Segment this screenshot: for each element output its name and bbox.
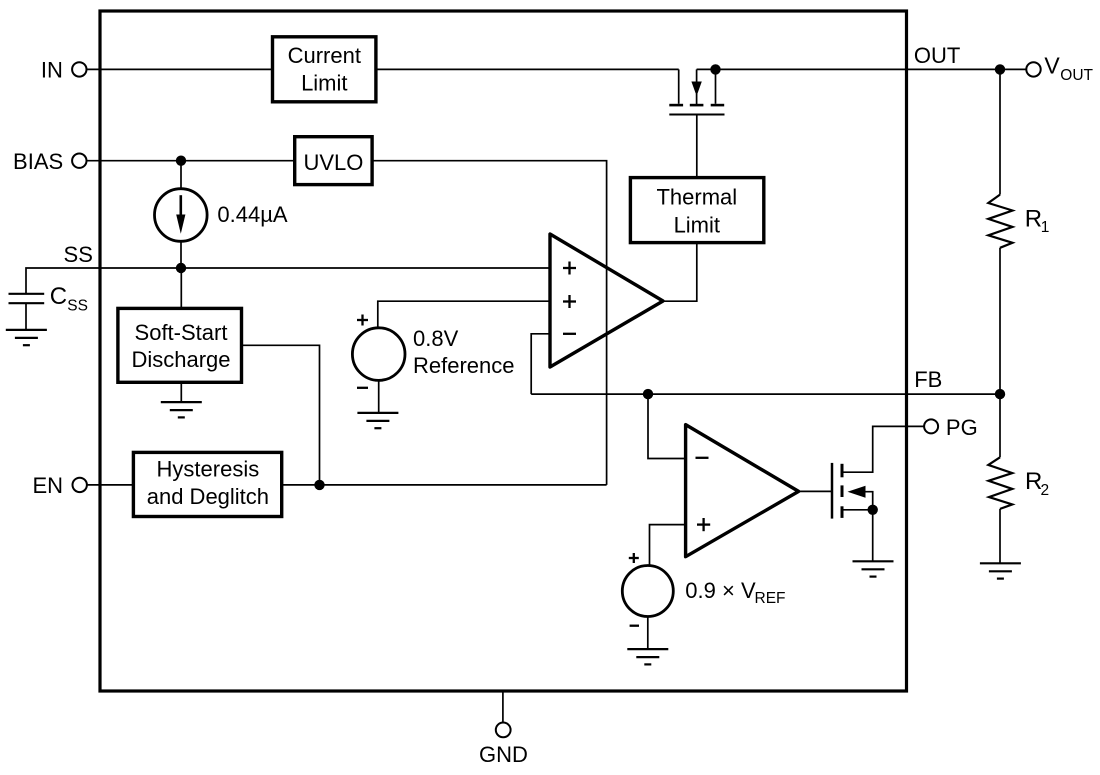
R2 top wire xyxy=(999,394,1001,457)
svg-text:BIAS: BIAS xyxy=(13,149,63,174)
resistor R2 xyxy=(980,394,1021,578)
R2 zigzag xyxy=(988,457,1012,509)
svg-text:GND: GND xyxy=(479,742,528,767)
pin circle EN xyxy=(73,478,87,492)
R2 bottom wire xyxy=(999,509,1001,563)
svg-text:0.44µA: 0.44µA xyxy=(217,202,287,227)
block Current Limit xyxy=(273,37,376,102)
wire Current Limit to pass transistor xyxy=(377,68,679,70)
wire OUT line xyxy=(697,68,1027,70)
U2 plus sign xyxy=(697,518,710,531)
I1 top wire xyxy=(180,161,182,189)
pin circle IN xyxy=(72,62,86,76)
block Thermal Limit xyxy=(630,178,763,243)
svg-text:Current: Current xyxy=(288,43,361,68)
pin circle GND xyxy=(496,723,511,738)
U1 plus sign input 2 xyxy=(563,295,576,308)
I1 arrow head xyxy=(176,215,185,234)
R1 bottom wire xyxy=(999,248,1001,394)
block Soft-Start Discharge xyxy=(118,308,242,382)
CSS top plate xyxy=(9,293,45,295)
voltage source V1 0.8V reference xyxy=(352,301,550,428)
V1 top wire to error amp input 2 xyxy=(378,301,550,328)
I1 bottom wire xyxy=(180,241,182,268)
svg-text:and Deglitch: and Deglitch xyxy=(147,484,269,509)
svg-text:R: R xyxy=(1025,206,1042,233)
transistor Q1 pass PMOS xyxy=(669,69,724,177)
Q1 drain tick xyxy=(711,104,725,107)
wire Hysteresis output to UVLO net xyxy=(282,484,607,486)
node dot Q1 drain on OUT wire xyxy=(710,64,720,74)
wire comparator plus input from V2 xyxy=(650,525,686,566)
Q2 body tick xyxy=(841,485,844,497)
R1 top wire xyxy=(999,69,1001,194)
svg-text:Hysteresis: Hysteresis xyxy=(157,457,260,482)
Q1 gate wire to Thermal Limit xyxy=(696,115,698,178)
wire SS to Soft-Start Discharge xyxy=(180,268,182,308)
Q1 body arrow tail to tick xyxy=(696,94,698,105)
V1 plus sign xyxy=(357,315,368,326)
ground under Soft-Start Discharge xyxy=(161,402,202,417)
svg-text:REF: REF xyxy=(755,590,786,607)
svg-text:Discharge: Discharge xyxy=(131,347,230,372)
CSS bottom wire xyxy=(25,303,27,330)
Q2 source tick xyxy=(841,506,844,518)
wire FB to comparator minus input xyxy=(648,394,686,458)
I1 arrow shaft xyxy=(180,195,183,216)
svg-text:FB: FB xyxy=(914,367,942,392)
svg-text:UVLO: UVLO xyxy=(303,150,363,175)
node dot FB comparator junction xyxy=(643,389,653,399)
Q1 source tick xyxy=(669,104,683,107)
block UVLO xyxy=(295,137,372,185)
node dot FB R1 R2 junction xyxy=(995,389,1005,399)
Q2 drain tick xyxy=(841,464,844,478)
Q2 body wire xyxy=(864,492,873,510)
svg-text:0.9 × V: 0.9 × V xyxy=(685,578,756,603)
svg-text:PG: PG xyxy=(946,415,978,440)
svg-text:Soft-Start: Soft-Start xyxy=(135,320,228,345)
svg-text:IN: IN xyxy=(41,58,63,83)
V2 bottom wire xyxy=(647,617,649,650)
CSS bottom plate xyxy=(9,302,45,304)
pin circle PG xyxy=(924,419,938,433)
svg-text:SS: SS xyxy=(64,242,93,267)
svg-text:C: C xyxy=(50,283,67,310)
V2 plus sign xyxy=(629,553,639,563)
wire EN pin to Hysteresis block xyxy=(87,484,134,486)
V1 circle xyxy=(352,328,405,381)
capacitor CSS xyxy=(6,294,47,345)
node dot BIAS current-source junction xyxy=(176,156,186,166)
Q1 body arrow head xyxy=(691,82,701,97)
wire comparator output to Q2 gate xyxy=(799,490,832,492)
svg-text:SS: SS xyxy=(67,298,88,315)
node dot OUT to R1 xyxy=(995,64,1005,74)
current source I1 xyxy=(155,161,208,268)
ground under V2 xyxy=(627,649,668,664)
U1 plus sign input 1 xyxy=(563,262,576,275)
V2 circle xyxy=(622,566,673,617)
Q2 source wire xyxy=(842,509,873,511)
ground under R2 xyxy=(980,563,1021,578)
Q2 gate bar xyxy=(831,463,834,519)
wire Soft-Start Discharge to ground xyxy=(180,382,182,402)
wire GND pin stub xyxy=(502,691,504,723)
wire UVLO to EN net xyxy=(372,161,606,485)
node dot Q2 source-body xyxy=(868,505,878,515)
ground under CSS xyxy=(6,330,47,345)
svg-text:V: V xyxy=(1044,52,1060,78)
Q1 source stub xyxy=(678,69,680,103)
wire BIAS to UVLO xyxy=(86,160,295,162)
Q1 gate bar xyxy=(669,114,724,116)
ground under Q2 xyxy=(853,561,894,576)
svg-text:Reference: Reference xyxy=(413,353,515,378)
pin circle VOUT xyxy=(1026,62,1040,76)
svg-text:OUT: OUT xyxy=(1060,67,1093,84)
Q1 drain stub xyxy=(715,69,717,103)
svg-text:Thermal: Thermal xyxy=(656,184,737,209)
wire IN pin to Current Limit xyxy=(86,68,271,70)
IC boundary box xyxy=(100,11,907,691)
svg-text:OUT: OUT xyxy=(914,43,960,68)
svg-text:Limit: Limit xyxy=(674,213,720,238)
V2 minus sign xyxy=(630,625,639,627)
svg-text:2: 2 xyxy=(1041,482,1050,499)
I1 circle xyxy=(155,189,208,242)
wire FB line xyxy=(531,393,1000,395)
block Hysteresis and Deglitch xyxy=(133,452,281,516)
wire Thermal Limit bottom to error amp output xyxy=(663,243,697,302)
Q1 body arrow shaft xyxy=(696,69,698,82)
Q2 body arrow head xyxy=(848,486,866,498)
svg-text:1: 1 xyxy=(1041,219,1050,236)
U1 minus sign input 3 xyxy=(563,333,576,335)
Q1 body tick xyxy=(690,104,704,107)
ground under V1 xyxy=(357,413,398,428)
Q2 source to ground wire xyxy=(872,510,874,562)
voltage source V2 0.9 x VREF xyxy=(622,553,673,664)
V1 bottom wire xyxy=(378,380,380,413)
node dot SS junction xyxy=(176,263,186,273)
wire Soft-Start Discharge output to EN net xyxy=(242,345,320,485)
op-amp U2 PG comparator xyxy=(686,425,799,557)
node dot EN net junction xyxy=(314,480,324,490)
op-amp U1 error amplifier xyxy=(550,234,663,367)
pin circle BIAS xyxy=(72,154,86,168)
U2 minus sign xyxy=(696,457,709,459)
svg-text:Limit: Limit xyxy=(301,70,347,95)
wire error amp minus input from FB xyxy=(531,334,550,394)
transistor Q2 PG open-drain NMOS xyxy=(832,426,924,576)
svg-text:EN: EN xyxy=(32,473,63,498)
wire SS line xyxy=(26,268,550,294)
svg-text:0.8V: 0.8V xyxy=(413,326,459,351)
Q2 drain wire to PG pin xyxy=(842,426,924,472)
resistor R1 xyxy=(988,69,1012,394)
R1 zigzag xyxy=(988,195,1012,248)
V1 minus sign xyxy=(357,387,368,389)
